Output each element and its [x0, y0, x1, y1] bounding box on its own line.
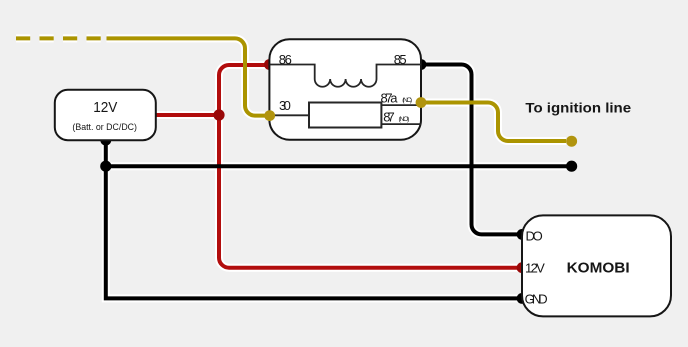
svg-text:30: 30: [279, 98, 291, 113]
svg-text:87: 87: [383, 109, 395, 124]
svg-text:DO: DO: [526, 229, 543, 244]
svg-text:87a: 87a: [381, 90, 399, 105]
svg-text:GND: GND: [525, 292, 548, 307]
svg-text:12V: 12V: [93, 99, 117, 116]
svg-text:KOMOBI: KOMOBI: [567, 261, 630, 277]
svg-text:(NO): (NO): [399, 116, 410, 123]
svg-text:85: 85: [394, 52, 407, 67]
svg-text:(NC): (NC): [402, 97, 412, 104]
svg-text:To ignition line: To ignition line: [525, 100, 631, 116]
svg-text:12V: 12V: [525, 260, 545, 275]
svg-text:(Batt. or DC/DC): (Batt. or DC/DC): [72, 122, 137, 133]
svg-text:86: 86: [279, 52, 292, 67]
